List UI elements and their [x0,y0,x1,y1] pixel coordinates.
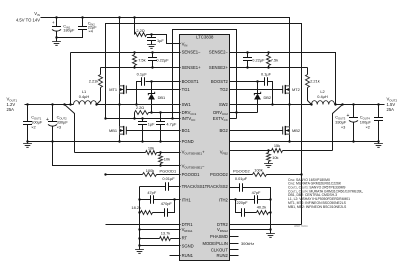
capacitor CIN1 180uF [56,18,58,27]
svg-text:PHASMD: PHASMD [210,234,228,239]
resistor 10k divider vertical ch1 [159,155,163,164]
svg-text:MB2: MB2 [292,128,300,133]
op-amp U1 LTC3838 controller IC body [180,35,230,261]
inductor L1 0.4uH [74,101,97,105]
svg-text:+: + [346,113,349,119]
resistor 100k PGOOD1 pullup [106,174,143,176]
svg-text:0.4µH: 0.4µH [79,94,90,99]
wire CLKOUT stub [230,249,239,251]
svg-text:BOOST1: BOOST1 [182,79,200,84]
transistor MB1 bottom NFET ch1 [119,105,121,127]
wire SGND line [140,245,181,247]
svg-text:40.2k: 40.2k [257,205,267,210]
wire remote sense + diagonal ch1 [65,105,75,153]
capacitor 220pF ITH2 compensation [236,200,242,213]
svg-text:0.22µF: 0.22µF [156,57,169,62]
wire VOUTSENSE1- kelvin line [53,142,181,166]
svg-text:+: + [46,117,49,123]
wire VFB2 line [230,150,269,152]
svg-text:300kHz: 300kHz [241,241,254,246]
svg-text:15k: 15k [274,143,280,148]
capacitor COUT4 100uF x2 [378,105,380,118]
svg-text:0.1µF: 0.1µF [137,72,148,77]
svg-text:SW2: SW2 [219,102,229,107]
svg-text:2.21k: 2.21k [310,79,320,84]
wire EXTVCC stub [230,118,237,120]
capacitor 0.01uF TRACK/SS2 [230,187,240,189]
diode DB1 schottky [151,82,153,94]
wire PHASMD stub [230,236,239,238]
diode DB2 schottky [257,82,259,94]
svg-text:3838 TA01b: 3838 TA01b [294,224,308,228]
svg-text:ITH1: ITH1 [182,197,192,202]
wire SENSE2- line [230,53,336,105]
svg-text:MT2: MT2 [292,87,300,92]
resistor 7.5k ch1 [133,55,137,66]
svg-text:10k: 10k [272,155,278,160]
svg-text:EXTVCC: EXTVCC [213,116,228,122]
transistor MB2 bottom NFET ch2 [289,105,291,127]
transistor MT2 top NFET ch2 [285,86,289,93]
svg-text:PGOOD2: PGOOD2 [210,172,229,177]
resistor 40.2k ITH2 compensation [257,211,269,215]
svg-text:0.22µF: 0.22µF [252,57,265,62]
svg-text:PGOOD1: PGOOD1 [160,169,177,174]
wire SENSE2+ line [230,67,308,69]
svg-text:PGOOD1: PGOOD1 [182,172,201,177]
svg-text:SENSE1−: SENSE1− [182,50,202,55]
wire VOUT2 line [335,104,385,106]
svg-text:MODE/PLLIN: MODE/PLLIN [203,241,228,246]
transistor MT1 top NFET ch1 [119,18,121,86]
svg-text:SENSE1+: SENSE1+ [182,65,202,70]
ground for SGND [139,246,141,250]
svg-text:×2: ×2 [366,125,370,130]
capacitor 47pF ITH2 [230,199,255,201]
svg-text:25A: 25A [7,107,15,112]
svg-text:47pF: 47pF [252,190,261,195]
capacitor 0.22uF ch2 [247,53,249,58]
svg-text:7.5k: 7.5k [271,57,278,62]
svg-text:VOUTSENSE1−: VOUTSENSE1− [182,163,206,169]
svg-text:RUN2: RUN2 [216,253,228,258]
wire VIN rail [41,18,290,86]
wire RUN2 stub [230,255,239,257]
svg-text:RUN1: RUN1 [182,253,194,258]
svg-text:TRACK/SS1: TRACK/SS1 [182,184,206,189]
svg-text:47pF: 47pF [147,190,156,195]
capacitor 470pF ITH1 compensation [165,208,168,217]
capacitor 1uF VIN filter [151,35,153,38]
svg-text:SENSE2+: SENSE2+ [209,65,229,70]
svg-text:2.2Ω: 2.2Ω [136,105,144,110]
svg-text:×3: ×3 [341,125,345,130]
resistor 18.2k ITH1 compensation [140,212,141,214]
resistor 13.7k RT [140,238,160,240]
svg-text:BG2: BG2 [220,128,229,133]
svg-text:VIN: VIN [34,11,40,17]
resistor 100k PGOOD2 pullup [230,174,253,176]
svg-text:INTVCC: INTVCC [182,116,196,122]
svg-text:VRNG2: VRNG2 [217,227,228,233]
svg-text:18.2k: 18.2k [131,205,141,210]
resistor 2.21k ch1 DCR sense [100,68,102,75]
svg-text:×2: ×2 [31,125,35,130]
svg-text:VRNG1: VRNG1 [182,227,193,233]
svg-text:MB1, MB2: INFINEON BSC010NE2LS: MB1, MB2: INFINEON BSC010NE2LS [288,205,347,209]
wire TG2 line [230,89,283,91]
svg-text:10k: 10k [164,156,170,161]
wire SENSE1- line [71,52,181,54]
wire DTR1 line [106,224,181,226]
resistor 7.5k ch2 [267,55,271,66]
resistor 2.21k ch2 DCR sense [307,68,309,75]
svg-text:TG1: TG1 [182,87,191,92]
wire MODE/PLLIN stub with 300kHz [230,243,239,245]
svg-text:PGND: PGND [182,139,194,144]
svg-text:1µF: 1µF [157,38,164,43]
wire TG1 line [127,89,181,91]
svg-text:10k: 10k [148,145,154,150]
svg-text:+: + [52,20,55,25]
svg-text:7.5k: 7.5k [138,57,145,62]
wire PGND rail left [28,141,181,143]
svg-text:TG2: TG2 [220,87,229,92]
svg-text:RT: RT [182,236,188,241]
svg-text:CLKOUT: CLKOUT [211,248,228,253]
svg-text:1µF: 1µF [148,122,155,127]
svg-text:SGND: SGND [182,243,194,248]
svg-text:2.21k: 2.21k [89,79,99,84]
svg-text:220pF: 220pF [236,200,248,205]
capacitor 4.7uF DRVCC1 [160,113,162,122]
wire SW2 line [230,104,312,106]
wire EXTVCC-DRVCC2 rail [173,30,237,119]
wire SW1 line [97,104,181,106]
svg-text:0.01µF: 0.01µF [162,176,175,181]
svg-text:PGOOD2: PGOOD2 [233,168,250,173]
svg-text:TRACK/SS2: TRACK/SS2 [205,184,229,189]
capacitor COUT3 330uF x3 [353,105,355,118]
svg-text:LTC3838: LTC3838 [196,35,214,40]
capacitor COUT2 330uF x3 [52,105,54,122]
resistor 2.2ohm VIN filter [134,18,136,35]
svg-text:SENSE2−: SENSE2− [209,50,229,55]
capacitor 0.01uF TRACK/SS1 [140,186,166,188]
svg-text:BG1: BG1 [182,128,191,133]
wire INTVCC distribution rail [106,24,302,225]
svg-text:0.4µH: 0.4µH [317,94,328,99]
capacitor 47pF ITH1 [140,199,151,201]
svg-text:DRVCC2: DRVCC2 [213,110,228,116]
inductor L2 0.4uH [312,101,335,105]
svg-text:DRVCC1: DRVCC1 [182,110,197,116]
svg-text:ITH2: ITH2 [219,197,229,202]
wire PGND rail right [230,141,379,143]
svg-text:MB1: MB1 [109,128,117,133]
resistor 10k VOUTSENSE1+ [146,151,157,155]
svg-text:180µF: 180µF [63,27,75,32]
ground for PGND rail left [27,142,29,144]
wire VFB2 sense tap diagonal [333,105,343,151]
svg-text:VFB2: VFB2 [220,150,229,156]
svg-text:BOOST2: BOOST2 [211,79,229,84]
svg-text:470pF: 470pF [161,201,173,206]
resistor 15k VFB2 top [272,149,283,153]
wire DTR2 line [230,224,302,226]
svg-text:4.7µF: 4.7µF [166,122,177,127]
svg-text:DB1: DB1 [158,95,166,100]
svg-text:100k: 100k [146,168,154,173]
ground for VRNG2 [270,230,272,234]
svg-text:4.5V TO 14V: 4.5V TO 14V [16,18,40,23]
svg-text:SW1: SW1 [182,102,192,107]
capacitor COUT1 100uF x2 [27,105,29,122]
ground for VFB2 divider [264,164,273,168]
ground for PGND rail right [378,142,380,144]
capacitor 0.1uF BOOST2 [230,81,265,83]
wire SENSE1+ line [101,67,181,69]
svg-text:100k: 100k [254,168,262,173]
svg-text:×3: ×3 [57,125,61,130]
svg-text:13.7k: 13.7k [161,231,171,236]
wire INTVCC line [106,118,181,120]
capacitor CIN2 22uF x4 [82,18,84,27]
svg-text:25A: 25A [387,107,395,112]
svg-text:0.1µF: 0.1µF [261,72,272,77]
capacitor 0.1uF BOOST1 [146,81,181,83]
wire DRVCC2 line [230,112,258,114]
wire VRNG1 line [140,229,181,231]
svg-text:VIN: VIN [182,42,188,48]
svg-text:DB2: DB2 [264,95,272,100]
wire BG2 line [230,130,283,132]
svg-text:0.01µF: 0.01µF [235,176,248,181]
ground for 1uF VIN filter [147,45,156,49]
wire RUN1 stub [170,255,181,257]
resistor 10k VFB2 bottom [268,151,270,153]
wire VRNG2 line [230,229,271,231]
wire BG1 line [127,130,181,132]
svg-text:2.2Ω: 2.2Ω [136,28,144,33]
svg-text:MT1: MT1 [109,87,117,92]
wire VOUTSENSE1+ line [75,152,146,154]
svg-text:VOUTSENSE1+: VOUTSENSE1+ [182,150,206,156]
wire VOUT1 line [25,104,74,106]
resistor 2.2ohm DRVCC1 [135,111,149,115]
capacitor 0.22uF ch1 [152,53,154,58]
capacitor 1uF INTVCC [142,119,144,122]
ground for CIN1 [52,42,61,46]
